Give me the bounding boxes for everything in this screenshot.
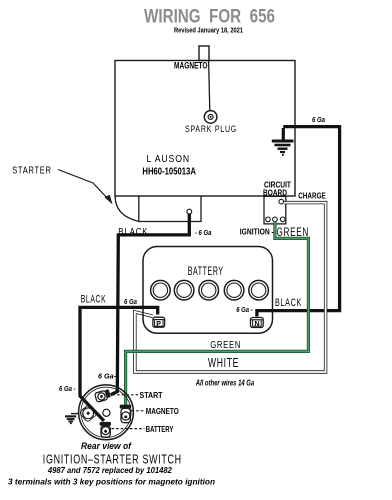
starter arrowhead <box>105 195 113 205</box>
switch left mount hole <box>79 404 97 422</box>
switch ground symbol <box>65 414 80 424</box>
svg-text:BLACK: BLACK <box>81 294 107 306</box>
engine bottom pan <box>139 196 201 221</box>
circuit board box <box>264 196 286 224</box>
wire 6Ga engine ground to battery N <box>258 127 339 311</box>
switch start terminal <box>94 389 111 402</box>
svg-text:IGNITION -: IGNITION - <box>240 227 274 237</box>
dashed leader MAGNETO <box>132 410 145 412</box>
svg-text:STARTER: STARTER <box>12 166 52 177</box>
starter leader line <box>58 170 110 201</box>
circuit board charge terminal <box>279 199 284 204</box>
svg-text:6 Ga: 6 Ga <box>312 117 325 124</box>
svg-text:START: START <box>140 391 163 400</box>
svg-text:- 6 Ga: - 6 Ga <box>195 230 212 237</box>
svg-text:CHARGE: CHARGE <box>298 191 326 200</box>
svg-text:Rear view of: Rear view of <box>81 441 132 452</box>
svg-text:BOARD: BOARD <box>263 188 287 198</box>
dashed leader START <box>113 394 139 396</box>
svg-text:WHITE: WHITE <box>208 356 239 370</box>
svg-text:6 Ga: 6 Ga <box>124 299 137 306</box>
circuit board bottom terminals <box>266 217 271 222</box>
svg-text:6 Ga-: 6 Ga- <box>98 374 117 381</box>
ignition switch body <box>79 385 134 440</box>
svg-text:MAGNETO: MAGNETO <box>174 61 208 71</box>
engine ground symbol <box>272 128 294 155</box>
switch center hole <box>103 409 110 416</box>
magneto terminal stub <box>199 46 209 61</box>
switch battery terminal <box>100 422 111 437</box>
svg-text:BATTERY: BATTERY <box>146 424 174 434</box>
svg-text:L AUSON: L AUSON <box>147 154 191 165</box>
svg-text:BATTERY: BATTERY <box>188 266 224 278</box>
battery N terminal <box>251 318 264 329</box>
svg-text:4987 and 7572 replaced by 1014: 4987 and 7572 replaced by 101482 <box>47 465 172 475</box>
wire battery P to switch battery <box>80 307 158 421</box>
svg-text:WIRING FOR 656: WIRING FOR 656 <box>144 6 275 27</box>
svg-text:HH60-105013A: HH60-105013A <box>142 167 196 178</box>
svg-text:BLACK: BLACK <box>275 297 302 309</box>
battery cells <box>151 280 269 300</box>
battery box <box>143 247 273 334</box>
svg-text:SPARK PLUG: SPARK PLUG <box>185 124 237 134</box>
battery P terminal <box>153 317 165 328</box>
svg-text:BLACK: BLACK <box>118 227 148 238</box>
svg-text:3 terminals with 3 key positio: 3 terminals with 3 key positions for mag… <box>8 477 215 487</box>
svg-text:GREEN: GREEN <box>277 225 310 239</box>
engine box (Lauson) <box>115 61 295 197</box>
svg-text:N: N <box>255 321 260 328</box>
wire engine terminal to switch start <box>111 214 190 395</box>
svg-text:All other wires 14 Ga: All other wires 14 Ga <box>195 379 255 388</box>
svg-text:Revised January 18, 2021: Revised January 18, 2021 <box>174 25 243 34</box>
wire stub into N terminal <box>255 309 258 317</box>
switch magneto terminal <box>120 405 132 423</box>
svg-text:6 Ga -: 6 Ga - <box>236 307 253 314</box>
svg-text:6 Ga -: 6 Ga - <box>59 386 76 393</box>
dashed leader BATTERY <box>112 428 145 430</box>
svg-text:P: P <box>156 321 161 328</box>
green wire: board to switch magneto <box>126 222 309 406</box>
engine output terminal <box>187 209 192 214</box>
svg-text:MAGNETO: MAGNETO <box>146 406 179 416</box>
spark plug <box>204 111 217 124</box>
starter curve <box>115 196 139 221</box>
white charge wire: board to battery P <box>135 203 326 372</box>
wire magneto to spark plug <box>209 61 210 111</box>
svg-text:GREEN: GREEN <box>210 339 241 351</box>
